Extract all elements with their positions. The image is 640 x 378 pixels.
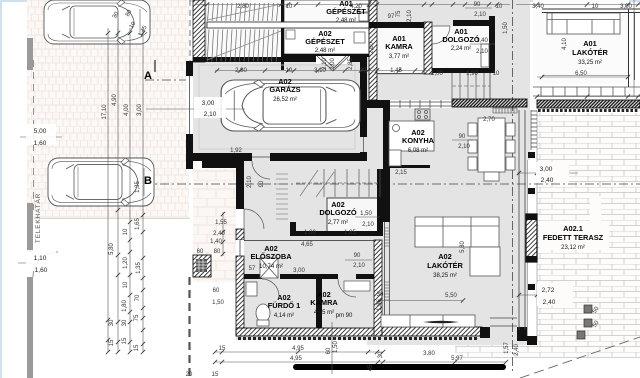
top dimension chain: [196, 4, 510, 6]
pillar black bottom: [480, 327, 490, 338]
wall: bathroom top y274: [244, 274, 262, 279]
wall: stairs right vertical: [377, 169, 383, 236]
wall: kamra/dolgozo divider: [424, 22, 432, 74]
svg-text:3,00: 3,00: [540, 166, 553, 173]
svg-text:2,10: 2,10: [458, 144, 470, 150]
svg-text:1,86: 1,86: [377, 299, 383, 311]
entry porch tiles: [193, 169, 236, 282]
dolgozo A01 door arc: [432, 26, 450, 44]
stairs A02 middle: [296, 169, 380, 197]
kitchen counter A02: [389, 109, 434, 166]
insulation row bath bottom: [238, 337, 241, 340]
svg-text:90: 90: [459, 134, 466, 140]
svg-text:33,25 m²: 33,25 m²: [578, 60, 602, 66]
terrace edge strip: [527, 110, 537, 345]
svg-text:2,48 m²: 2,48 m²: [336, 18, 356, 24]
insulation dotted rows: [238, 337, 477, 340]
insulation row lakoter bottom: [384, 337, 387, 340]
terrace pillar big: [526, 214, 537, 262]
svg-text:1,60: 1,60: [35, 267, 48, 274]
stairs A01 down right: [452, 73, 490, 99]
room A01 DOLGOZO: [432, 26, 489, 70]
toilet: [256, 304, 270, 326]
svg-text:DOLGOZÓ: DOLGOZÓ: [442, 35, 480, 44]
svg-text:5,80: 5,80: [109, 243, 115, 255]
small leader lines: [20, 136, 62, 138]
eloszoba window vertical chain: [222, 212, 224, 256]
svg-text:1,92: 1,92: [230, 148, 242, 154]
svg-text:3,40: 3,40: [532, 4, 544, 10]
window: lakoter bottom band: [490, 317, 517, 319]
svg-text:FÜRDŐ 1: FÜRDŐ 1: [268, 301, 300, 310]
svg-text:1,50: 1,50: [333, 341, 339, 353]
svg-text:3,00: 3,00: [137, 104, 143, 116]
svg-text:3,80: 3,80: [423, 351, 435, 357]
svg-text:3,77 m²: 3,77 m²: [389, 54, 409, 60]
sofa A02 lakoter: [415, 217, 500, 276]
svg-text:4,05 m²: 4,05 m²: [314, 310, 334, 316]
wall: lakoter A02 bottom hatched: [382, 327, 482, 336]
garage ceiling inset line: [199, 65, 355, 149]
dining table: [468, 118, 515, 181]
svg-text:5,97: 5,97: [451, 356, 463, 362]
svg-text:4,65: 4,65: [301, 242, 313, 248]
svg-text:2,10: 2,10: [362, 222, 374, 228]
wall: bath/kamra divider: [316, 279, 322, 330]
wall: entry step vertical: [236, 161, 244, 208]
svg-text:30: 30: [377, 292, 384, 298]
section line B dash-dot: [143, 183, 640, 185]
wall: gepeszet divider vertical: [281, 0, 284, 70]
line under 6.50: [542, 75, 628, 77]
svg-text:90: 90: [259, 180, 265, 187]
mid dimension chain y70: [215, 70, 430, 72]
right chains: [633, 0, 635, 96]
wall: kamra bottom thin: [377, 73, 424, 74]
svg-text:10: 10: [286, 4, 293, 10]
svg-text:3,00: 3,00: [202, 100, 215, 107]
wall: A02 dolgozo bottom: [290, 231, 383, 236]
svg-text:2,70: 2,70: [483, 117, 495, 123]
wall: kamra top: [369, 22, 432, 28]
svg-text:4,95: 4,95: [292, 346, 304, 352]
wall: konyha/lakoter left vertical: [383, 108, 390, 215]
svg-text:26,52 m²: 26,52 m²: [273, 97, 297, 103]
svg-text:80: 80: [214, 249, 221, 255]
svg-text:2,10: 2,10: [407, 10, 413, 22]
scanned page edge tint top/left: [0, 0, 640, 2]
staircase A02 lower flight: [207, 30, 278, 62]
pm90 leader: [331, 322, 333, 374]
svg-text:30: 30: [378, 351, 384, 358]
svg-text:A02.1: A02.1: [563, 224, 583, 233]
room A02 DOLGOZO: [327, 198, 378, 232]
bottom chains: [215, 351, 383, 353]
svg-text:1,00: 1,00: [304, 230, 316, 236]
porch column hatched: [193, 255, 211, 277]
svg-text:4,14 m²: 4,14 m²: [274, 313, 294, 319]
svg-text:2,48 m²: 2,48 m²: [315, 48, 335, 54]
room A02 GEPESZET: [284, 28, 369, 54]
wall: eloszoba right hatched: [374, 240, 382, 336]
svg-text:4,95: 4,95: [290, 356, 302, 362]
wall: bottom wall bath/kamra hatched: [236, 328, 382, 336]
svg-text:15: 15: [219, 346, 226, 352]
svg-text:2,40: 2,40: [543, 299, 556, 306]
svg-text:1,55: 1,55: [215, 220, 227, 226]
doormat detail: [196, 259, 207, 272]
svg-text:pm 90: pm 90: [336, 313, 353, 319]
svg-text:2,80: 2,80: [235, 68, 247, 74]
radiator comb dining: [493, 108, 517, 113]
svg-text:10,74 m²: 10,74 m²: [259, 264, 283, 270]
svg-text:GARÁZS: GARÁZS: [269, 85, 300, 94]
kamra door arc: [338, 279, 356, 297]
vertical dash-dot line x512: [512, 0, 514, 372]
diagonal dashed lines bottom right: [520, 337, 640, 378]
svg-text:23,12 m²: 23,12 m²: [561, 245, 585, 251]
svg-text:45: 45: [368, 364, 374, 371]
svg-text:15: 15: [134, 344, 140, 351]
svg-text:1,80: 1,80: [122, 300, 128, 312]
wall: garage left lower: [186, 134, 193, 169]
wall: A01 lakoter bottom hatched part: [537, 100, 640, 108]
svg-text:2,40: 2,40: [514, 344, 520, 356]
svg-text:1,57: 1,57: [504, 342, 510, 354]
wall: garage top: [193, 57, 316, 62]
svg-text:5,50: 5,50: [445, 293, 457, 299]
wall: porch step: [202, 161, 244, 168]
svg-text:1,50: 1,50: [212, 300, 224, 306]
svg-text:4,00: 4,00: [124, 104, 130, 116]
wall: big horizontal y100 right part dense hatch: [452, 99, 527, 107]
svg-text:GÉPÉSZET: GÉPÉSZET: [326, 7, 366, 16]
car 2 driveway bottom: [48, 158, 154, 206]
garage hall door arc: [252, 161, 270, 179]
staircase A01 upper flight: [208, 3, 279, 21]
entry walkway paving: [146, 180, 189, 218]
wall: garage bottom: [186, 153, 367, 161]
stairwell block white: [207, 0, 281, 62]
dolgozo closet: [481, 44, 489, 67]
svg-text:A: A: [144, 70, 152, 82]
section line A dash-dot: [145, 79, 192, 81]
svg-text:30: 30: [360, 68, 367, 74]
stairs top block: [207, 3, 281, 62]
wall: dolgozo top: [453, 20, 493, 26]
car 3 garage: [221, 80, 360, 131]
bottom heavy bar: [293, 364, 506, 370]
svg-text:2,40: 2,40: [541, 177, 554, 184]
svg-text:15: 15: [212, 372, 219, 378]
svg-text:3,00: 3,00: [293, 268, 305, 274]
svg-text:4,90: 4,90: [112, 94, 118, 106]
door gap garage-hall: [252, 153, 270, 161]
svg-text:75: 75: [396, 10, 402, 17]
wall: kitchen stub y166: [389, 165, 430, 168]
kamra shelf: [344, 281, 370, 291]
svg-text:GÉPÉSZET: GÉPÉSZET: [305, 37, 345, 46]
svg-text:6,50: 6,50: [575, 71, 587, 77]
sofa A01 lakoter: [547, 13, 620, 34]
svg-text:2,10: 2,10: [476, 49, 488, 55]
svg-text:2,15: 2,15: [395, 170, 407, 176]
white rooms: [207, 0, 629, 232]
svg-text:2,80: 2,80: [237, 4, 249, 10]
svg-text:10: 10: [123, 228, 129, 235]
svg-text:10: 10: [496, 4, 503, 10]
svg-text:1,35: 1,35: [136, 262, 142, 274]
svg-text:10: 10: [123, 281, 129, 288]
wall: eloszoba left hatched: [236, 229, 244, 240]
svg-text:1,00: 1,00: [431, 71, 443, 77]
svg-text:10: 10: [592, 4, 599, 10]
bath door arc: [262, 279, 279, 296]
svg-text:38,25 m²: 38,25 m²: [433, 273, 457, 279]
glass wall to terrace double line: [518, 110, 520, 330]
svg-text:1,45: 1,45: [390, 68, 402, 74]
chimney flue symbol: [316, 56, 350, 64]
window: konyha top: [390, 100, 452, 108]
wall: eloszoba top thin: [244, 240, 374, 242]
room A01 LAKOTER: [533, 0, 629, 84]
terrace small blocks: [528, 152, 535, 158]
svg-text:2,72: 2,72: [542, 287, 555, 294]
property boundary marker blocks: [27, 38, 33, 378]
white boxes under labels on tiles: [539, 221, 609, 250]
window eloszoba left: [236, 240, 244, 256]
svg-text:75: 75: [134, 314, 140, 321]
svg-text:1,40: 1,40: [210, 239, 222, 245]
svg-text:LAKÓTÉR: LAKÓTÉR: [427, 261, 463, 270]
window nubs lakoter left wall: [383, 215, 390, 222]
svg-text:97: 97: [388, 14, 395, 20]
car 1 driveway top: [44, 0, 150, 44]
svg-text:90: 90: [474, 2, 481, 8]
svg-text:1,50: 1,50: [503, 22, 509, 34]
terrace dims: [536, 162, 569, 183]
svg-text:2,10: 2,10: [353, 263, 365, 269]
svg-text:2,10: 2,10: [204, 111, 217, 118]
shower: [260, 258, 278, 278]
wall: A01 lakoter top window: [542, 8, 640, 10]
svg-text:KONYHA: KONYHA: [402, 136, 435, 145]
corner pillar L: [517, 327, 527, 341]
left vertical chains: [107, 28, 109, 352]
svg-text:2,60: 2,60: [369, 42, 375, 54]
wall: garage left upper: [186, 61, 193, 76]
svg-text:1,20: 1,20: [123, 257, 129, 269]
svg-text:20: 20: [186, 372, 193, 378]
wall: gepeszet bottom y54: [284, 54, 369, 57]
svg-text:2,40: 2,40: [213, 231, 225, 237]
svg-text:5,00: 5,00: [34, 128, 47, 135]
svg-text:1,90: 1,90: [466, 71, 478, 77]
svg-text:1,10: 1,10: [34, 255, 47, 262]
svg-text:2,00: 2,00: [330, 58, 336, 70]
svg-text:17,10: 17,10: [102, 104, 108, 120]
svg-text:TELEKHATÁR: TELEKHATÁR: [33, 193, 42, 243]
washer squares gepeszet: [286, 4, 368, 43]
svg-text:2,10: 2,10: [322, 58, 328, 70]
svg-text:A01: A01: [583, 39, 597, 48]
svg-text:3,00: 3,00: [620, 4, 632, 10]
svg-text:FEDETT TERASZ: FEDETT TERASZ: [543, 233, 604, 242]
svg-text:90: 90: [354, 253, 361, 259]
dimension tick marks: [106, 2, 640, 364]
svg-text:ELŐSZOBA: ELŐSZOBA: [250, 252, 292, 261]
wall: eloszoba left upper: [236, 205, 244, 209]
svg-text:60: 60: [197, 249, 204, 255]
svg-text:1,60: 1,60: [34, 140, 47, 147]
svg-text:1,65: 1,65: [135, 218, 141, 230]
svg-text:KAMRA: KAMRA: [310, 298, 338, 307]
svg-text:1,50: 1,50: [360, 211, 372, 217]
svg-text:2,10: 2,10: [247, 176, 253, 188]
svg-text:A02: A02: [438, 252, 452, 261]
wall: A01 lakoter bottom window band: [533, 87, 640, 96]
svg-text:DOLGOZÓ: DOLGOZÓ: [319, 208, 357, 217]
washbasin: [246, 282, 257, 296]
svg-text:4,10: 4,10: [562, 38, 568, 50]
svg-text:10: 10: [493, 71, 500, 77]
bold dashed property/line x189: [188, 277, 190, 378]
svg-text:30: 30: [109, 319, 115, 326]
building interior grey field: [193, 0, 530, 345]
entry door opening: [236, 209, 244, 229]
wall: dolgozo bottom: [432, 68, 493, 73]
svg-text:70: 70: [135, 294, 141, 301]
wall: garage right: [360, 61, 367, 137]
room A01 GEPESZET: [284, 0, 369, 22]
wall: stairs block left: [193, 0, 205, 62]
svg-text:LAKÓTÉR: LAKÓTÉR: [572, 48, 608, 57]
svg-text:1,85: 1,85: [344, 230, 356, 236]
planter squares: [577, 305, 592, 339]
wall: gepeszet horizontal band y22 white: [207, 22, 369, 28]
svg-text:2,77 m²: 2,77 m²: [328, 220, 348, 226]
wall: A01 lakoter right window: [628, 9, 630, 87]
svg-text:2,24 m²: 2,24 m²: [451, 46, 471, 52]
svg-text:2,10: 2,10: [474, 12, 486, 18]
window: lakoter A02 left: [384, 215, 386, 327]
svg-text:B: B: [144, 175, 152, 187]
paving bottom edge: [34, 218, 190, 220]
wall: kamra left hatched: [369, 0, 377, 100]
svg-text:KAMRA: KAMRA: [385, 42, 413, 51]
svg-text:60: 60: [213, 288, 220, 294]
svg-text:10: 10: [286, 68, 293, 74]
driveway paving field: [27, 0, 189, 218]
terrace tiles right: [537, 113, 640, 345]
svg-text:30: 30: [122, 319, 128, 326]
radiator combs lakoter left: [384, 228, 389, 300]
svg-text:57: 57: [249, 266, 256, 272]
wall: A02 dolgozo left: [290, 222, 296, 236]
svg-text:60: 60: [326, 347, 332, 354]
tv console: [381, 315, 475, 327]
gate arc bottom left: [33, 252, 58, 277]
svg-text:1,35: 1,35: [135, 181, 141, 193]
entry door arc: [244, 209, 264, 229]
svg-text:2,85: 2,85: [348, 58, 354, 70]
insulation teeth under A01 wall: [538, 109, 637, 112]
svg-text:15: 15: [109, 339, 115, 346]
room A01 KAMRA: [377, 28, 424, 74]
wall: big horizontal y100 left part: [360, 100, 390, 108]
svg-text:6,08 m²: 6,08 m²: [408, 148, 428, 154]
svg-text:5,80: 5,80: [460, 241, 466, 253]
wall: corridor right vertical: [489, 16, 495, 73]
svg-text:15: 15: [122, 337, 128, 344]
winder stairs strip: [276, 174, 288, 219]
garage door opening: [186, 76, 193, 134]
terrace tiles bottom strip: [455, 341, 640, 358]
